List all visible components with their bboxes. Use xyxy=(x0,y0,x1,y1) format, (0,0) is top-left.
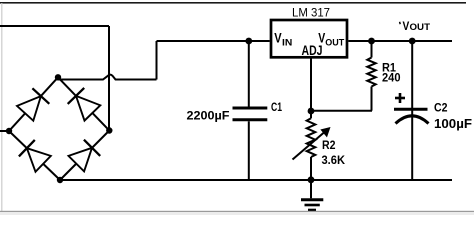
wire R1 bottom lead xyxy=(371,87,373,111)
svg-text:3.6K: 3.6K xyxy=(322,153,346,167)
node bridge right vertex xyxy=(106,127,112,133)
node bridge bottom vertex xyxy=(57,177,63,183)
wire bottom ground rail xyxy=(60,179,452,181)
wire bridge + output with crossover hop xyxy=(58,75,157,80)
node ground junction xyxy=(308,176,315,183)
capacitor C1 plates xyxy=(233,108,268,120)
wire riser up to VIN level xyxy=(156,41,158,80)
label VOUT output xyxy=(400,21,431,33)
diode D3 bottom-left xyxy=(19,140,51,172)
svg-text:LM 317: LM 317 xyxy=(292,7,330,19)
rheostat arrow R2 xyxy=(293,126,331,159)
resistor R2 zigzag xyxy=(307,118,316,157)
node bridge left vertex xyxy=(6,128,12,134)
diode D2 top-right xyxy=(68,88,101,121)
plus sign C2 polarity xyxy=(395,93,405,103)
svg-text:IN: IN xyxy=(282,37,292,48)
wire AC input stub left edge to bridge left vertex xyxy=(0,130,9,132)
wire R2 bottom lead xyxy=(310,157,312,180)
svg-text:100µF: 100µF xyxy=(434,117,472,131)
ground symbol xyxy=(301,200,323,210)
node R1 top junction xyxy=(368,38,375,45)
svg-text:OUT: OUT xyxy=(410,22,431,32)
svg-text:2200µF: 2200µF xyxy=(187,109,230,123)
node junction dots xyxy=(6,38,416,184)
resistor R1 zigzag xyxy=(367,58,375,87)
top border line xyxy=(0,2,466,4)
wire AC input top from left edge xyxy=(0,25,109,27)
svg-text:C2: C2 xyxy=(434,102,448,114)
node bridge top vertex xyxy=(55,74,61,80)
wire ADJ node to R1 bottom xyxy=(311,110,372,112)
wire ground stub xyxy=(310,180,312,199)
capacitor C2 plates xyxy=(394,109,429,123)
wire to VIN pin xyxy=(157,40,270,42)
wire AC input vertical down to bridge right vertex xyxy=(108,26,110,131)
wire bridge edge left-top xyxy=(9,77,58,131)
pin label VOUT xyxy=(318,31,344,49)
svg-text:C1: C1 xyxy=(271,102,282,114)
wire bridge edge bottom-right xyxy=(60,131,109,181)
svg-text:V: V xyxy=(274,31,281,46)
wire VOUT pin to output rail xyxy=(348,40,452,42)
left border line xyxy=(1,3,2,212)
node C1 top junction xyxy=(245,38,252,45)
wire ADJ pin down to R2 xyxy=(310,57,312,118)
wire C2 lead through plates xyxy=(411,41,413,180)
svg-text:R2: R2 xyxy=(322,138,336,152)
wire C1 top lead xyxy=(248,41,250,107)
diode D1 top-left xyxy=(17,88,49,120)
svg-text:240: 240 xyxy=(382,72,401,84)
node ADJ junction xyxy=(308,108,315,115)
wire R1 top lead xyxy=(371,41,373,58)
pin label VIN xyxy=(274,31,292,49)
node C2 output junction xyxy=(409,38,416,45)
wire bridge edge bottom-left xyxy=(9,131,60,180)
op-amp U1 LM317 regulator box xyxy=(271,20,347,57)
wire bridge edge right-top xyxy=(58,77,109,130)
svg-text:ADJ: ADJ xyxy=(302,43,323,58)
svg-text:OUT: OUT xyxy=(325,37,344,48)
bottom border line xyxy=(0,211,474,212)
wire C1 bottom lead xyxy=(248,121,250,180)
diode D4 bottom-right xyxy=(69,140,101,172)
